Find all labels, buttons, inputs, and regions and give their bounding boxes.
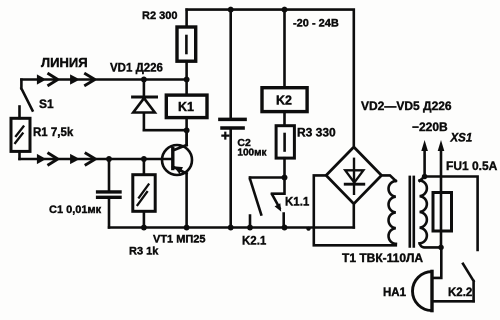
wire: bridge left vertex to primary bottom bbox=[314, 175, 396, 245]
wire: secondary bottom link bbox=[420, 243, 441, 247]
contact K2.1 bbox=[250, 178, 261, 228]
wire: K2.2 feed bbox=[425, 177, 478, 251]
svg-text:VT1 МП25: VT1 МП25 bbox=[153, 234, 206, 246]
wire: bell bottom link bbox=[432, 300, 474, 303]
node: C2 bottom junction bbox=[228, 225, 234, 231]
node: C2 top junction bbox=[228, 7, 234, 13]
node: K2 top junction bbox=[282, 7, 288, 13]
resistor R3 330 bbox=[276, 126, 294, 158]
node: junction R3 330 / contacts bbox=[282, 175, 288, 181]
node: bus blob bbox=[306, 226, 310, 230]
node: emitter junction bbox=[184, 225, 190, 231]
transformer T1 primary winding bbox=[389, 181, 396, 244]
svg-text:R2 300: R2 300 bbox=[142, 10, 177, 22]
wire: contacts top link bbox=[250, 176, 285, 179]
node: junction R3 / lower line bbox=[141, 156, 147, 162]
svg-text:R1 7,5k: R1 7,5k bbox=[33, 127, 74, 139]
node: secondary bottom / fuse wire junction bbox=[438, 245, 444, 251]
bell HA1 bbox=[430, 271, 433, 310]
svg-text:HA1: HA1 bbox=[383, 287, 407, 299]
svg-text:C1 0,01мк: C1 0,01мк bbox=[49, 204, 102, 216]
wire: bridge right vertex to primary top bbox=[382, 175, 396, 181]
svg-text:-20 - 24В: -20 - 24В bbox=[293, 18, 339, 30]
svg-text:Т1 ТВК-110ЛА: Т1 ТВК-110ЛА bbox=[342, 251, 423, 265]
svg-text:100мк: 100мк bbox=[237, 148, 267, 159]
node: junction K1 bottom / VD1 bbox=[184, 127, 190, 133]
resistor R3 1k bbox=[143, 159, 146, 175]
plug XS1 pin right bbox=[438, 140, 445, 151]
wire: top supply rail bbox=[187, 10, 354, 147]
plug XS1 pin left bbox=[421, 140, 428, 151]
capacitor C2 bbox=[229, 10, 232, 119]
wire: lower line (ЛИНИЯ lower conductor) bbox=[20, 158, 173, 161]
resistor R2 bbox=[185, 10, 188, 27]
svg-text:VD1 Д226: VD1 Д226 bbox=[110, 63, 163, 75]
diode VD1 bbox=[141, 77, 147, 83]
wire: bridge bottom to bus bbox=[352, 204, 355, 228]
svg-text:K2.2: K2.2 bbox=[448, 287, 472, 299]
transformer T1 secondary winding bbox=[420, 180, 427, 243]
wire: bell top link bbox=[432, 247, 441, 278]
capacitor C1 bbox=[108, 159, 111, 191]
wire: bottom common bus bbox=[109, 226, 354, 229]
node: junction C1 / lower line bbox=[106, 156, 112, 162]
node: R3 bottom junction bbox=[141, 225, 147, 231]
transformer T1 core bbox=[410, 177, 414, 247]
bridge rectifier VD2-VD5 bbox=[326, 147, 381, 204]
svg-text:S1: S1 bbox=[39, 97, 54, 111]
svg-text:FU1 0.5A: FU1 0.5A bbox=[446, 159, 498, 173]
svg-text:K1.1: K1.1 bbox=[285, 197, 310, 209]
svg-text:K2.1: K2.1 bbox=[242, 236, 267, 248]
node: mains left / K2.2 feed junction bbox=[422, 174, 428, 180]
fuse FU1 bbox=[433, 193, 452, 232]
arrowheads on lower line bbox=[37, 153, 96, 164]
svg-text:K2: K2 bbox=[276, 94, 292, 108]
node: junction upper line / R2 bbox=[184, 77, 190, 83]
svg-text:XS1: XS1 bbox=[450, 133, 473, 145]
contact K2.2 bbox=[463, 264, 474, 302]
svg-text:R3 330: R3 330 bbox=[297, 126, 336, 140]
svg-text:R3 1k: R3 1k bbox=[129, 246, 159, 258]
contact K1.1 bbox=[272, 178, 285, 228]
svg-text:ЛИНИЯ: ЛИНИЯ bbox=[41, 55, 88, 70]
wire: top line (ЛИНИЯ upper conductor) bbox=[21, 78, 186, 81]
transistor VT1 bbox=[162, 145, 192, 175]
relay coil K1 bbox=[166, 95, 207, 118]
switch S1 bbox=[21, 80, 32, 111]
svg-text:VD2—VD5 Д226: VD2—VD5 Д226 bbox=[361, 99, 452, 113]
resistor R1 bbox=[18, 107, 21, 119]
relay coil K2 bbox=[283, 10, 286, 88]
arrowheads on upper line bbox=[37, 74, 95, 85]
svg-text:K1: K1 bbox=[178, 100, 194, 114]
svg-text:−220В: −220В bbox=[412, 120, 448, 134]
